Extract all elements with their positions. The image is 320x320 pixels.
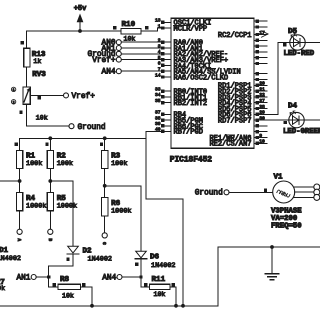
wire AN4 to pin [121, 70, 162, 72]
resistor R5 [47, 192, 77, 210]
svg-text:PIC18F452: PIC18F452 [170, 156, 212, 165]
svg-text:V1: V1 [274, 174, 284, 182]
junction node R8-bus [90, 304, 94, 308]
wire ground bus top [218, 246, 320, 248]
wire AN1 to R8 [36, 276, 49, 278]
wire LED D4 to right edge [304, 119, 320, 121]
resistor R13 [20, 41, 45, 67]
terminal Vref+ [64, 93, 96, 101]
svg-text:35: 35 [155, 98, 161, 104]
svg-text:21: 21 [259, 86, 265, 92]
junction node RB7net-bus [181, 304, 185, 308]
IC U1 left pin stubs [155, 18, 171, 133]
IC U1 right pin labels [209, 32, 251, 149]
svg-text:1000k: 1000k [57, 202, 77, 210]
wire R11 to ground bus [170, 287, 176, 306]
terminal phase 3 [314, 194, 320, 200]
wire RB7 pin to network bus [146, 131, 183, 305]
svg-text:D1: D1 [0, 247, 9, 255]
svg-text:RB2/INT2: RB2/INT2 [174, 100, 208, 108]
svg-text:5: 5 [158, 55, 161, 61]
svg-text:1N4002: 1N4002 [0, 255, 21, 263]
svg-text:AN1: AN1 [16, 274, 30, 282]
wire R3 to R6 [104, 168, 106, 197]
svg-text:2: 2 [158, 38, 161, 44]
svg-text:28: 28 [259, 104, 265, 110]
junction node R1-R4 [18, 179, 22, 183]
wire R8 to ground bus [81, 287, 93, 306]
svg-text:Vref+: Vref+ [92, 57, 116, 65]
svg-text:LED-RED: LED-RED [284, 50, 315, 58]
wire down to R8 [49, 277, 58, 287]
terminal AN0 [102, 40, 122, 48]
terminal Ground [69, 124, 106, 132]
IC U1 right pin stubs (named) [254, 30, 267, 145]
IC U1 PIC18F452 body [171, 18, 254, 148]
wire +5V rail [27, 30, 121, 32]
wire bus to R1 [19, 138, 21, 150]
ground symbol [265, 247, 279, 280]
svg-text:RC2/CCP1: RC2/CCP1 [218, 32, 252, 40]
wire down to R11 [141, 277, 150, 287]
svg-text:10k: 10k [36, 114, 48, 121]
svg-text:RD7/PSP7: RD7/PSP7 [218, 118, 252, 126]
wire R4 to terminal [19, 211, 21, 229]
svg-text:AN4: AN4 [102, 274, 116, 282]
IC U1 RC2 clock marker [262, 31, 269, 37]
resistor R8 [53, 276, 86, 299]
terminal phase 1 [314, 184, 320, 190]
svg-text:D2: D2 [83, 248, 93, 256]
IC U1 right pin stubs (unnamed) [254, 20, 267, 134]
svg-text:10k: 10k [62, 292, 74, 299]
svg-text:29: 29 [259, 110, 265, 116]
wire AN4 to D6 node [122, 276, 141, 278]
diode D1 (clipped at edge) [0, 247, 21, 263]
terminal AN1 [102, 45, 122, 53]
terminal b [47, 229, 53, 241]
wire D6 to AN4 node [140, 260, 142, 277]
svg-text:1000k: 1000k [26, 202, 46, 210]
IC U1 left pin labels [174, 20, 241, 137]
terminal a [16, 229, 22, 241]
svg-text:100k: 100k [111, 160, 127, 168]
svg-text:D4: D4 [288, 102, 298, 110]
svg-text:10k: 10k [0, 285, 5, 292]
wire RV3 wiper to Vref+ terminal [30, 94, 63, 96]
wire R1 to R4 [19, 168, 21, 192]
junction square AN4 node [139, 275, 142, 278]
junction node bus-R3 [103, 136, 107, 140]
junction node R2-R5 [48, 179, 52, 183]
svg-text:13: 13 [155, 18, 161, 24]
wire R6 to terminal [104, 216, 106, 233]
diode D6 [135, 251, 175, 270]
junction node R11-bus [174, 304, 178, 308]
svg-text:LED-GREEN: LED-GREEN [283, 128, 320, 136]
resistor R6 [102, 198, 132, 216]
junction square at D2 cathode [66, 258, 69, 261]
svg-text:6: 6 [158, 61, 161, 67]
svg-text:MCLR/VPP: MCLR/VPP [174, 25, 208, 33]
wire bus to R2 [49, 138, 51, 150]
wire R10 to MCLR pin [141, 28, 162, 31]
terminal AN1 (bottom) [16, 274, 36, 282]
wire LED D5 to right edge [305, 42, 320, 44]
resistor R4 [17, 192, 47, 210]
svg-text:+5v: +5v [74, 5, 87, 13]
svg-text:27: 27 [259, 98, 265, 104]
wire R2 node to diode D2 [50, 181, 73, 246]
wire network top bus [20, 137, 146, 139]
resistor R10 [113, 21, 148, 42]
potentiometer RV3 [11, 71, 47, 121]
svg-text:1000k: 1000k [111, 208, 131, 216]
svg-text:14: 14 [155, 72, 161, 78]
terminal AN4 (bottom) [102, 274, 122, 282]
wire bus to R3 [104, 138, 106, 150]
junction square at D4 anode [284, 121, 287, 124]
svg-text:AN4: AN4 [102, 69, 116, 77]
wire R2 to R5 [49, 168, 51, 192]
svg-text:1N4002: 1N4002 [88, 255, 112, 263]
wire R3 node to diode D6 [105, 186, 141, 251]
svg-text:D5: D5 [288, 28, 298, 36]
svg-text:38: 38 [155, 115, 161, 121]
wire AN1 to pin [121, 47, 162, 49]
wire RD6 pin to LED D5 [267, 43, 290, 115]
junction square AN1 node [47, 275, 50, 278]
wire R5 to terminal [49, 211, 51, 229]
wire RD7 pin to LED D4 [267, 119, 289, 121]
wire R13 to RV3 [26, 67, 28, 87]
svg-text:1: 1 [158, 23, 161, 29]
junction node bus-R2 [48, 136, 52, 140]
svg-text:34: 34 [155, 92, 161, 98]
svg-text:100k: 100k [26, 160, 42, 168]
junction node ground tap [270, 245, 274, 249]
svg-text:Ground: Ground [78, 124, 106, 132]
svg-text:FREQ=50: FREQ=50 [271, 223, 302, 231]
svg-text:33: 33 [155, 86, 161, 92]
terminal c [101, 233, 107, 245]
diode D2 [67, 246, 112, 263]
junction square at D5 anode [283, 43, 286, 46]
svg-text:RA6/OSC2/CLKO: RA6/OSC2/CLKO [174, 74, 229, 82]
source V1 [271, 174, 302, 231]
svg-text:100k: 100k [57, 160, 73, 168]
power +5V [74, 5, 87, 31]
terminal Ground (V1) [195, 190, 229, 198]
svg-text:R11: R11 [152, 276, 166, 284]
wire Ground to pin [121, 53, 162, 55]
LED D4 [283, 102, 320, 136]
terminal Vref+ [92, 57, 121, 65]
terminal Ground [88, 51, 122, 59]
svg-text:7: 7 [158, 67, 161, 73]
wire V1 phase 3 output [294, 196, 314, 198]
svg-text:4: 4 [158, 49, 161, 55]
svg-text:22: 22 [259, 92, 265, 98]
wire V1 phase 1 output [294, 186, 314, 188]
svg-text:1k: 1k [33, 58, 41, 65]
resistor R7 (clipped at edge) [0, 279, 5, 292]
svg-text:D6: D6 [150, 254, 160, 262]
svg-text:R8: R8 [60, 276, 70, 284]
svg-text:1N4002: 1N4002 [151, 262, 175, 270]
LED D5 [284, 28, 315, 58]
wire D2 to AN1 node [49, 254, 73, 277]
resistor R2 [45, 143, 73, 169]
svg-text:RE2/CS/AN7: RE2/CS/AN7 [209, 141, 251, 149]
terminal AN4 [102, 69, 122, 77]
wire ground bus riser [217, 247, 219, 306]
junction square at V1 input [264, 189, 267, 192]
junction node R3-R6 [103, 184, 107, 188]
wire V1 phase 2 output [295, 191, 314, 193]
svg-text:10: 10 [259, 139, 265, 145]
svg-text:37: 37 [155, 110, 161, 116]
wire RV3 bottom to Ground terminal [27, 104, 69, 126]
svg-text:30: 30 [259, 115, 265, 121]
svg-text:RB7/PGD: RB7/PGD [174, 129, 203, 137]
resistor R11 [144, 276, 175, 298]
svg-text:RV3: RV3 [32, 71, 46, 79]
junction node on +5V rail [78, 29, 82, 33]
wire AN0 to pin [121, 41, 162, 43]
svg-text:Vref+: Vref+ [72, 93, 96, 101]
svg-text:10k: 10k [154, 291, 166, 298]
wire R13 top [26, 31, 28, 48]
svg-text:Ground: Ground [195, 190, 223, 198]
resistor R1 [15, 143, 43, 169]
svg-text:3: 3 [158, 43, 161, 49]
wire Vref+ to pin [121, 59, 162, 61]
svg-text:39: 39 [155, 121, 161, 127]
resistor R3 [100, 143, 128, 169]
svg-text:9: 9 [259, 133, 262, 139]
label PIC18F452 [170, 156, 212, 165]
svg-text:20: 20 [259, 81, 265, 87]
wire phase A input (from left edge) [0, 180, 20, 182]
svg-text:10k: 10k [124, 35, 136, 42]
junction square at D6 cathode [135, 263, 138, 266]
wire ground bus bottom [0, 305, 218, 307]
terminal phase 2 [314, 189, 320, 195]
wire Ground terminal to V1 [229, 191, 273, 193]
